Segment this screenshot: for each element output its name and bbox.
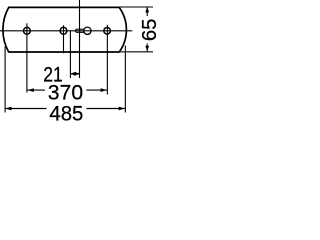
hole right bbox=[104, 28, 111, 35]
dim 21 left extension line bbox=[69, 31, 71, 78]
dim 65 bottom extension line bbox=[120, 51, 154, 53]
dim 370 line right bbox=[86, 89, 107, 91]
dim 370 line left bbox=[28, 89, 46, 91]
dim 65 top extension line bbox=[120, 6, 154, 8]
dim 21 line bbox=[70, 73, 79, 75]
hole middle bbox=[60, 27, 67, 34]
dim 485 line right bbox=[87, 108, 126, 110]
hole right crosshair vertical bbox=[106, 25, 108, 95]
dim 65 line bottom bbox=[146, 44, 148, 52]
svg-text:65: 65 bbox=[139, 19, 160, 42]
svg-text:485: 485 bbox=[49, 101, 83, 124]
hole left bbox=[24, 27, 31, 34]
dim 370 arrow right bbox=[101, 88, 107, 92]
dim 485 arrow left bbox=[5, 107, 11, 111]
dim 485 arrow right bbox=[119, 107, 125, 111]
dim 485 left extension line bbox=[4, 47, 6, 113]
horizontal centerline bbox=[0, 30, 132, 32]
plate outline bbox=[3, 7, 127, 52]
keyhole slot neck bbox=[75, 29, 84, 32]
dim 65 line top bbox=[146, 7, 148, 16]
vertical centerline (node at x=79.5) bbox=[79, 0, 81, 78]
keyhole slot bbox=[84, 27, 91, 34]
dim 485 line left bbox=[5, 108, 46, 110]
dim 65 arrow down bbox=[145, 46, 149, 52]
hole left crosshair vertical bbox=[26, 23, 28, 92]
hole middle crosshair vertical bbox=[63, 25, 65, 53]
dim 370 arrow left bbox=[28, 88, 34, 92]
dim 21 arrow left bbox=[70, 72, 75, 76]
dim 485 right extension line bbox=[124, 46, 126, 113]
dim 21 arrow right bbox=[75, 72, 80, 76]
dim 65 arrow up bbox=[145, 7, 149, 13]
